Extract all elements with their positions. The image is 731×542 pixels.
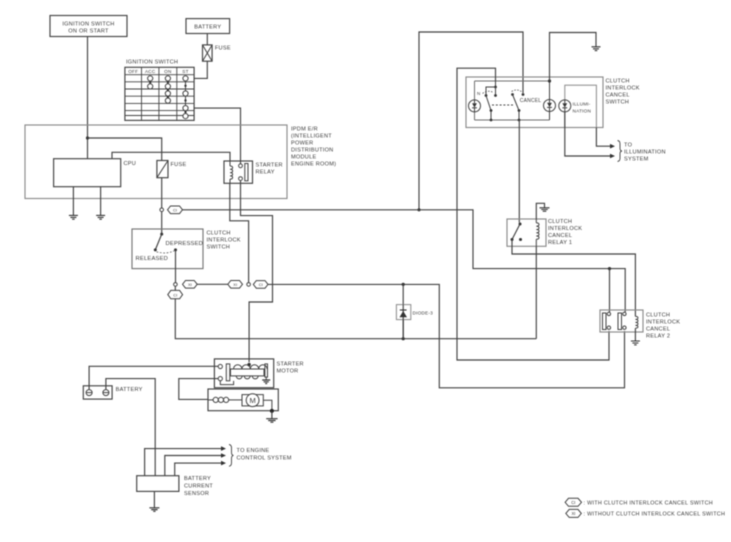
legend: XI connector meaning (566, 509, 725, 517)
wire: CI line drop to relay 2 contact 1 (609, 269, 611, 312)
svg-text:CANCEL: CANCEL (520, 98, 542, 104)
svg-text:XI: XI (572, 511, 576, 516)
wire: CI branch riser to cancel switch CANCEL contact (419, 32, 523, 210)
svg-text:INTERLOCK: INTERLOCK (606, 85, 640, 91)
svg-text:INTERLOCK: INTERLOCK (548, 226, 582, 232)
svg-text:BATTERY: BATTERY (116, 387, 143, 393)
wire: cancel switch internal bottom bus (475, 119, 550, 121)
wire: ignition ON/START down to CPU (87, 37, 89, 159)
svg-text:CI: CI (259, 282, 263, 287)
svg-text:TO: TO (624, 142, 633, 148)
node: dot solenoid coil feed (247, 363, 250, 366)
svg-text:MOTOR: MOTOR (277, 368, 299, 374)
node: junction dot on ON/START wire (86, 136, 89, 139)
diode lamp D1 (N position) in circle (469, 81, 481, 120)
svg-text:INTERLOCK: INTERLOCK (207, 238, 241, 244)
svg-text:XI: XI (233, 282, 237, 287)
starter motor solenoid (214, 359, 303, 388)
wire: N contact line to cancel relay 2 contact (457, 68, 609, 360)
connector oval XI #2 (228, 281, 243, 289)
svg-text:CLUTCH: CLUTCH (207, 231, 231, 237)
svg-text:SYSTEM: SYSTEM (624, 156, 649, 162)
svg-text:SWITCH: SWITCH (207, 245, 231, 251)
wire: CI line to the right (183, 210, 626, 312)
connector: circle at switch output (174, 283, 178, 287)
wire: cancel switch internal top bus (475, 80, 550, 82)
wire: XI/CI line right to cancel relay 2 (268, 284, 625, 387)
connector oval CI on pedal switch drop (168, 290, 183, 298)
wire: CPU output to starter relay coil (112, 152, 230, 161)
ground: relay 1 coil top (536, 203, 549, 219)
svg-text:RELEASED: RELEASED (136, 256, 169, 262)
svg-text:SENSOR: SENSOR (184, 491, 209, 497)
svg-text:XI: XI (188, 282, 192, 287)
ground: starter motor (266, 411, 277, 422)
svg-text:POWER: POWER (291, 141, 313, 147)
wire: diode D2 to ground at top (550, 33, 597, 82)
wire: relay 1 output to relay 2 coil (512, 240, 635, 317)
svg-text:RELAY: RELAY (256, 170, 275, 176)
wire: starter relay coil low side to XI/CI connector (230, 183, 249, 282)
svg-text:CLUTCH: CLUTCH (646, 313, 670, 319)
wire: clutch interlock switch output down (175, 250, 177, 283)
svg-text:CLUTCH: CLUTCH (606, 78, 630, 84)
svg-text:IPDM E/R: IPDM E/R (291, 127, 318, 133)
svg-text:CI: CI (173, 208, 177, 213)
brace and label: to illumination system (618, 141, 666, 163)
svg-text:N: N (477, 91, 480, 96)
node: dot on CI line at relay 2 feed (608, 267, 611, 270)
svg-text:DIODE-3: DIODE-3 (413, 310, 434, 315)
wire: sensor output 2 to engine control system (165, 453, 226, 476)
svg-text:STARTER: STARTER (277, 361, 304, 367)
legend: CI connector meaning (565, 498, 713, 506)
clutch interlock switch (pedal) (132, 229, 241, 269)
svg-text:IGNITION SWITCH: IGNITION SWITCH (62, 22, 114, 28)
ignition switch ON column contacts (165, 76, 170, 103)
clutch interlock cancel relay 2 (600, 310, 680, 340)
svg-text:ON: ON (164, 69, 171, 74)
svg-text:CANCEL: CANCEL (646, 327, 670, 333)
svg-text:TO ENGINE: TO ENGINE (237, 448, 270, 454)
clutch interlock cancel switch box (466, 77, 640, 128)
diode lamp D2 (cancel) in circle (544, 81, 556, 120)
node: dot at CI branch (417, 208, 420, 211)
svg-text:CI: CI (173, 292, 177, 297)
svg-text:NATION: NATION (573, 109, 592, 114)
svg-text:RELAY 1: RELAY 1 (548, 240, 572, 246)
svg-text:CURRENT: CURRENT (184, 484, 213, 490)
wire: battery terminal 2 to current sensor (106, 379, 155, 476)
connector: circle below IPDM fuse (160, 208, 164, 212)
svg-text:RELAY 2: RELAY 2 (646, 334, 670, 340)
svg-text:STARTER: STARTER (256, 163, 283, 169)
wire: pedal switch drop to relay1 coil line (175, 286, 536, 339)
ignition switch ST column contacts (183, 76, 188, 119)
wire: IPDM fuse down to connector (161, 178, 163, 208)
connector oval CI on fuse output (168, 206, 183, 214)
svg-text:ON OR START: ON OR START (68, 28, 109, 34)
svg-text:ST: ST (182, 69, 188, 74)
wire: solenoid contact to motor feed (179, 379, 218, 400)
wire: sensor output 3 to engine control system (175, 461, 226, 476)
node: dot diode-3 top junction (402, 283, 405, 286)
node: dot motor ground junction (270, 409, 274, 413)
node: dot diode-3 bottom junction (402, 337, 405, 340)
svg-text:BATTERY: BATTERY (184, 476, 211, 482)
connector oval CI #2 (253, 281, 268, 289)
svg-text:CPU: CPU (124, 161, 137, 167)
svg-text:CLUTCH: CLUTCH (548, 219, 572, 225)
CPU U1 (54, 159, 136, 187)
ground: battery current sensor (149, 491, 159, 511)
wire: illumination feed to illumination system (upper arrow) (596, 128, 615, 149)
illumination lamp L1 (559, 85, 597, 127)
wire: sensor output 1 to engine control system (145, 446, 226, 475)
svg-text:ENGINE ROOM): ENGINE ROOM) (291, 162, 336, 168)
svg-text:INTERLOCK: INTERLOCK (646, 320, 680, 326)
svg-text:ACC: ACC (145, 69, 156, 74)
brace and label: to engine control system (229, 445, 292, 467)
svg-text:OFF: OFF (128, 69, 138, 74)
wire: relay 1 coil low to diode/pedal line (535, 246, 537, 338)
svg-text:MODULE: MODULE (291, 155, 316, 161)
ground: cancel switch top right (592, 47, 601, 51)
svg-text:IGNITION SWITCH: IGNITION SWITCH (126, 60, 178, 66)
fuse F2 in IPDM (157, 161, 187, 178)
svg-text:DEPRESSED: DEPRESSED (166, 241, 204, 247)
wire: cancel switch common down to cancel relay 1 (518, 120, 520, 223)
wire: between XI connectors (197, 283, 228, 285)
box: ignition switch ON or START supply (50, 16, 127, 37)
ignition switch S1 (contact table) (125, 60, 194, 121)
svg-text:FUSE: FUSE (171, 162, 187, 168)
svg-text:BATTERY: BATTERY (194, 24, 221, 30)
wire: starter relay contact out to starter motor solenoid (241, 181, 273, 363)
svg-text:CI: CI (571, 500, 575, 505)
battery current sensor (137, 476, 214, 497)
battery B2 (lower left) (83, 386, 142, 399)
svg-text:FUSE: FUSE (215, 46, 231, 52)
svg-text:ILLUMI-: ILLUMI- (573, 102, 591, 107)
battery B1 (top) (186, 19, 230, 34)
wire: ignition ST row to IPDM starter relay contact (194, 108, 240, 164)
svg-text:ILLUMINATION: ILLUMINATION (624, 149, 666, 155)
svg-text:DISTRIBUTION: DISTRIBUTION (291, 148, 333, 154)
clutch interlock cancel relay 1 (507, 219, 582, 246)
fuse F1 fusible link (box with X) (203, 45, 231, 61)
wire: battery terminal 1 to solenoid B terminal (89, 366, 218, 389)
connector: circle between XI and CI (247, 283, 251, 287)
svg-text:CANCEL: CANCEL (548, 233, 572, 239)
wire: junction to IPDM fuse (88, 138, 162, 161)
diode D3 (DIODE-3) (396, 284, 433, 338)
wire: battery to fusible link (206, 34, 208, 45)
switch SW-CANCEL (511, 90, 541, 121)
svg-text:(INTELLIGENT: (INTELLIGENT (291, 134, 332, 140)
wire: illumination lamp to illumination system (lower arrow) (565, 112, 615, 158)
node: dot cancel switch top edge (548, 79, 551, 82)
wire: fusible link down to ignition switch table ST row1 (194, 61, 207, 78)
ignition switch ACC column contacts (148, 76, 153, 89)
svg-text:: WITHOUT CLUTCH INTERLOCK CAN: : WITHOUT CLUTCH INTERLOCK CANCEL SWITCH (584, 511, 726, 517)
connector oval XI #1 (183, 281, 198, 289)
wire: fuse output down to clutch interlock switch (161, 212, 163, 235)
starter motor M1 (208, 389, 278, 411)
starter relay RLY1 (224, 161, 283, 183)
svg-text:SWITCH: SWITCH (606, 99, 630, 105)
wire: mechanical link dashed between switches (492, 104, 515, 106)
svg-text:CONTROL SYSTEM: CONTROL SYSTEM (237, 456, 292, 462)
switch SW-N (neutral) (477, 81, 497, 121)
svg-text:: WITH CLUTCH INTERLOCK CANCEL: : WITH CLUTCH INTERLOCK CANCEL SWITCH (584, 500, 714, 506)
ground: relay 2 coil bottom (631, 328, 640, 345)
IPDM E/R module box (25, 125, 336, 199)
svg-text:M: M (249, 396, 255, 405)
ground: CPU ground 1 (69, 187, 78, 220)
svg-text:CANCEL: CANCEL (606, 92, 630, 98)
ground: CPU ground 2 (96, 187, 105, 220)
